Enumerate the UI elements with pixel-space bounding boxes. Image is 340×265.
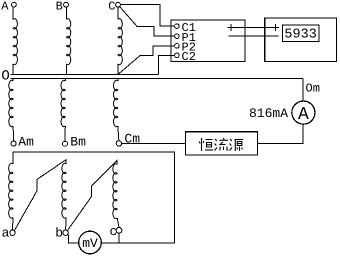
svg-text:Bm: Bm (70, 135, 86, 150)
svg-text:C2: C2 (182, 50, 196, 64)
svg-text:A: A (298, 105, 309, 125)
svg-text:Cm: Cm (124, 131, 140, 146)
svg-text:C: C (108, 0, 115, 14)
svg-text:a: a (2, 226, 10, 241)
svg-text:B: B (56, 0, 63, 14)
svg-text:b: b (55, 226, 63, 241)
svg-text:mV: mV (82, 236, 98, 251)
svg-text:5933: 5933 (284, 28, 316, 43)
svg-text:c: c (110, 224, 118, 239)
svg-text:O: O (1, 69, 9, 85)
svg-text:Om: Om (306, 81, 320, 95)
svg-text:816mA: 816mA (249, 106, 288, 121)
svg-text:Am: Am (18, 134, 34, 149)
svg-text:A: A (1, 0, 9, 14)
